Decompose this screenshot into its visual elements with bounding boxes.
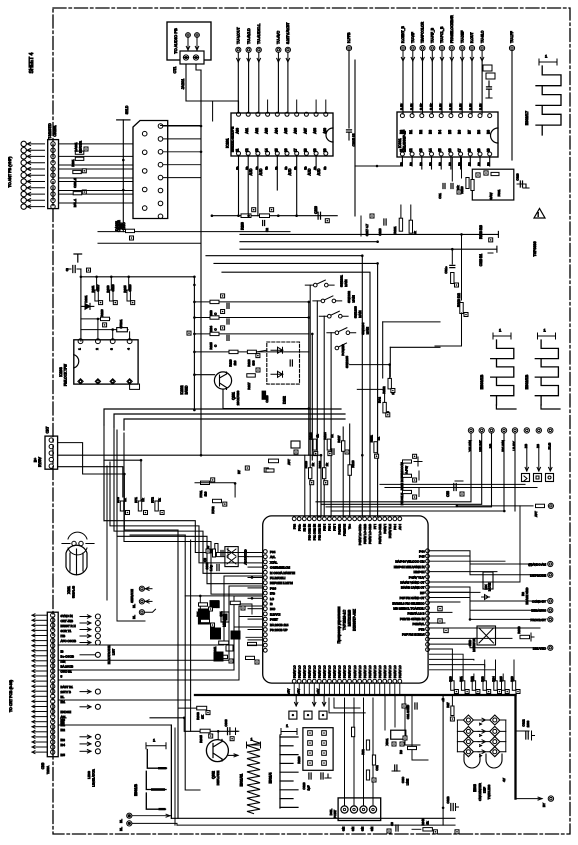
terminal BL2 xyxy=(132,609,156,619)
svg-text:P1/AV LO: P1/AV LO xyxy=(313,665,317,678)
svg-text:P1/AV LO: P1/AV LO xyxy=(348,665,352,678)
svg-text:E901/41: E901/41 xyxy=(240,774,244,787)
wire X902 xyxy=(216,553,248,557)
resistor R216 xyxy=(100,309,110,327)
svg-text:P33: P33 xyxy=(292,524,296,530)
svg-text:P1/AV LO: P1/AV LO xyxy=(333,665,337,678)
U1201 top pin 19 xyxy=(383,517,387,521)
CN9 label 5 xyxy=(61,675,63,679)
wire dgl nest2 xyxy=(353,698,355,806)
wire rb2 xyxy=(430,654,464,667)
svg-text:GND: GND xyxy=(468,640,472,646)
svg-text:AUD: AUD xyxy=(249,168,253,175)
svg-text:3.3k: 3.3k xyxy=(469,103,473,110)
marker E901B xyxy=(146,737,166,749)
wire U1201 left stub 9 xyxy=(248,644,262,646)
U1201 top pin 16 label xyxy=(368,524,372,544)
CN9 stub 14 xyxy=(32,680,47,683)
svg-text:+5V: +5V xyxy=(296,689,300,694)
CN9 label B+-OSOB xyxy=(61,654,74,658)
tuner pin R5 xyxy=(158,175,163,180)
arrow into IC201 pin 2 xyxy=(257,53,260,63)
svg-text:SHLD: SHLD xyxy=(125,105,129,114)
wire dgl nest6 xyxy=(334,698,360,708)
svg-text:P1/AV LO: P1/AV LO xyxy=(368,665,372,678)
trimmer RV901 xyxy=(484,715,506,725)
wire CN201 pin to tuner 2 xyxy=(59,155,134,157)
resistor R224 xyxy=(209,310,229,334)
U1201 top pin 8 xyxy=(328,517,332,521)
wire CN201 pin to tuner 1 xyxy=(59,143,134,145)
junction r2 xyxy=(469,618,472,621)
resistor R933 xyxy=(481,676,491,694)
arrow CN201 2 xyxy=(27,149,45,152)
arrow into IC301 pin 6 xyxy=(461,51,464,61)
svg-text:COND-DY: COND-DY xyxy=(532,600,546,604)
terminal PHASELOCKBAR xyxy=(449,15,454,51)
resistor R206 xyxy=(126,229,135,232)
svg-text:RY/5V: RY/5V xyxy=(38,456,42,466)
svg-text:!: ! xyxy=(538,213,539,219)
label E901/41 xyxy=(240,774,244,787)
svg-text:1k: 1k xyxy=(316,434,320,438)
wire IC201 pin 17 down xyxy=(296,155,298,215)
component MONITOR box xyxy=(468,626,496,652)
CN9 label BABT B1 xyxy=(61,685,74,689)
svg-text:A06: A06 xyxy=(294,128,298,134)
transistor Q902 xyxy=(206,731,228,761)
svg-text:AUD: AUD xyxy=(317,168,321,175)
U1201 right pin P45 xyxy=(426,554,430,558)
svg-text:Q902: Q902 xyxy=(212,771,216,779)
connector box TO AUDIO PB xyxy=(167,22,211,60)
value label pin 7 xyxy=(469,103,473,110)
svg-text:JA201: JA201 xyxy=(181,79,185,90)
svg-text:R72: R72 xyxy=(151,497,155,503)
svg-text:5b: 5b xyxy=(255,166,259,170)
waveform E901/B trace xyxy=(146,750,166,811)
U1201 bottom pin 57 label xyxy=(328,665,332,678)
CN9 pin 14 xyxy=(51,679,55,683)
resistor R72 xyxy=(151,497,165,515)
CN201 pin 11 xyxy=(51,204,55,208)
wire JA201 left pin to IC201 pin1 xyxy=(186,64,239,112)
U1201 right pin EYB/BL3 FM SELIEIOO xyxy=(426,601,430,605)
svg-text:BL: BL xyxy=(132,615,136,619)
U1201 top pin 10 xyxy=(338,517,342,521)
remocon row3 xyxy=(400,488,419,506)
CN201 outer lug 3 xyxy=(21,154,26,159)
arrow into IC301 pin 4 xyxy=(440,51,443,61)
U1201 bottom pin 45 xyxy=(388,679,392,683)
transistor Q201 xyxy=(214,372,231,390)
wire AFT 505 xyxy=(456,505,533,513)
CN9 pin 11 xyxy=(51,664,55,668)
svg-text:MEM: MEM xyxy=(223,619,227,627)
terminal H3 xyxy=(524,428,530,448)
network pad L0 xyxy=(308,731,313,736)
resistor F701 xyxy=(199,478,215,498)
U1201 right pin label 0 xyxy=(419,549,425,553)
svg-text:A02: A02 xyxy=(255,128,259,134)
CN9 stub 13 xyxy=(32,675,47,678)
waveform E302/1B xyxy=(525,340,560,409)
U1201 right pin P3F FM SAND OT xyxy=(426,596,430,600)
svg-text:P1/AV LO: P1/AV LO xyxy=(373,665,377,678)
CN201 outer lug 8 xyxy=(21,185,26,190)
svg-text:2k: 2k xyxy=(325,463,329,467)
svg-text:V: V xyxy=(479,723,483,725)
svg-text:BL: BL xyxy=(61,695,65,699)
svg-text:R31: R31 xyxy=(459,676,463,682)
wire R932 up xyxy=(473,674,475,681)
wire 460 run xyxy=(104,459,142,501)
U1201 bottom pin 46 xyxy=(383,679,387,683)
svg-text:PG I: PG I xyxy=(393,524,397,530)
DGL pin label 3 xyxy=(361,827,365,831)
label IC201 pin 16 net xyxy=(288,168,292,175)
label MEM xyxy=(223,619,227,627)
trimmer RV921 xyxy=(484,737,506,747)
CN201 outer lug 2 xyxy=(21,148,26,153)
svg-text:E901/B: E901/B xyxy=(134,784,138,796)
svg-text:1k0: 1k0 xyxy=(233,360,237,365)
label 4V xyxy=(502,778,506,782)
svg-text:R127: R127 xyxy=(337,435,341,443)
svg-text:IB3: IB3 xyxy=(61,738,66,742)
svg-text:P1/AV LO: P1/AV LO xyxy=(303,665,307,678)
terminal S.MTV.AV.BT xyxy=(285,22,290,53)
wire step from JA201 xyxy=(212,101,214,121)
U1201 right pin label 13 xyxy=(400,617,425,621)
U1201 top pin 7 xyxy=(323,517,327,521)
svg-text:P1/AV LO: P1/AV LO xyxy=(383,665,387,678)
IC301 bottom pin 18 xyxy=(467,148,472,156)
U1201 left pin label FLLM/ОБLI xyxy=(270,576,285,580)
terminal BY out xyxy=(516,796,554,807)
svg-text:3: 3 xyxy=(110,348,114,350)
svg-text:C33: C33 xyxy=(446,491,450,497)
svg-text:IB1: IB1 xyxy=(61,723,66,727)
terminal HELIMT xyxy=(479,428,485,452)
junction bus 374.7 xyxy=(193,373,196,376)
U1201 bottom pin 59 xyxy=(317,679,321,683)
svg-text:B0: B0 xyxy=(399,130,403,134)
IC301 bottom pin 12 xyxy=(409,148,414,156)
capacitor C920 xyxy=(302,773,331,791)
resistor R907 xyxy=(206,544,218,554)
CN201 outer lug 9 xyxy=(21,191,26,196)
svg-text:R34: R34 xyxy=(492,676,496,682)
svg-text:P34+: P34+ xyxy=(297,524,301,531)
label IC201 net 0 xyxy=(236,166,240,170)
svg-text:R218: R218 xyxy=(247,359,251,367)
svg-text:PWM/YH: PWM/YH xyxy=(343,524,347,536)
svg-text:P32 OSM IN: P32 OSM IN xyxy=(318,524,322,540)
wire h535 xyxy=(130,534,185,536)
wire IC201 pin 13 down xyxy=(257,155,259,215)
svg-text:R126: R126 xyxy=(318,461,322,469)
capacitor C906 xyxy=(205,562,219,571)
svg-text:(R)AVDC-AM: (R)AVDC-AM xyxy=(528,563,546,567)
tuner pin R2 xyxy=(158,137,163,142)
terminal JA201 pin 2 xyxy=(195,33,200,38)
wire R931 up xyxy=(462,667,464,681)
terminal BL3 xyxy=(119,813,171,823)
DGL pin 1 xyxy=(341,806,348,813)
value label pin 5 xyxy=(449,103,453,110)
svg-text:P1/AV LO: P1/AV LO xyxy=(323,665,327,678)
wire CN9 r4 xyxy=(58,606,262,680)
wire IC201 pin 15 down xyxy=(276,155,278,190)
marker E302b xyxy=(538,328,556,340)
svg-text:P30 OSM IN: P30 OSM IN xyxy=(308,524,312,540)
U1201 right pin extra 1 xyxy=(426,643,430,647)
CN9 mini terminal 691 xyxy=(80,689,100,694)
svg-text:+9V: +9V xyxy=(316,689,320,694)
U1201 top pin 14 xyxy=(358,517,362,521)
svg-text:C912: C912 xyxy=(522,719,526,727)
CN9 extra label 5 xyxy=(61,753,66,757)
tuner pin R3 xyxy=(158,150,163,155)
wire IC201 pin 3 stub xyxy=(267,100,269,112)
wire row 329 xyxy=(81,329,128,331)
U1201 right pin label 15 xyxy=(419,627,425,631)
U1201 top pin 2 xyxy=(297,517,301,521)
svg-text:1: 1 xyxy=(545,54,548,59)
U1201 right pin HA/AB VIANO OT xyxy=(426,580,430,584)
svg-text:BL: BL xyxy=(119,819,123,823)
wire tuner out 3 xyxy=(163,164,201,166)
IC301 top pin 2 xyxy=(409,114,414,134)
connector CN9 body xyxy=(41,612,58,774)
CN9 pin 2 xyxy=(51,618,55,622)
svg-text:GN: GN xyxy=(361,827,365,831)
U1201 left pin 16 xyxy=(263,633,267,637)
terminal TU-PCL_B xyxy=(439,26,444,51)
IC203 bottom pin 6 xyxy=(95,379,100,384)
DGL pin 4 xyxy=(369,806,376,813)
CN201 outer lug 5 xyxy=(21,166,26,171)
svg-text:MUTE: MUTE xyxy=(488,583,492,591)
capacitor C320 xyxy=(516,173,530,188)
terminal BL1 xyxy=(132,599,152,608)
memory U902 blob1 xyxy=(210,601,219,608)
svg-text:AO I: AO I xyxy=(398,524,402,530)
svg-text:YEL/GN: YEL/GN xyxy=(468,440,472,451)
terminal TU-V.OUT xyxy=(236,27,241,53)
wire long 419 xyxy=(124,419,345,430)
svg-text:LESS: LESS xyxy=(87,771,91,779)
svg-text:C31: C31 xyxy=(438,193,442,199)
CN201 pin 10 xyxy=(51,198,55,202)
junction q902 xyxy=(217,730,220,733)
CN9 pin 16 xyxy=(51,689,55,693)
svg-text:P3B/AVL: P3B/AVL xyxy=(413,622,425,626)
label D202 xyxy=(283,396,287,404)
wire terminal to IC201 pin 3 xyxy=(277,62,279,112)
resistor R219 xyxy=(229,350,239,366)
label IC301 net 8 xyxy=(477,162,481,166)
U1201 left pin 13 xyxy=(263,617,267,621)
resistor R318 xyxy=(460,303,468,317)
CN9 mini terminal 655 xyxy=(80,652,100,657)
svg-text:R221: R221 xyxy=(393,226,397,234)
bracket cup left xyxy=(464,754,480,768)
IC201 bottom pin 17 xyxy=(294,148,299,155)
tuner pin L3 xyxy=(142,169,147,174)
CN9 mini terminal 629.5 xyxy=(80,627,100,632)
resistor R223 xyxy=(209,294,229,318)
wire mem2 xyxy=(240,604,252,614)
CN201 outer lug 11 xyxy=(21,204,26,209)
CN9 stub 9 xyxy=(32,654,47,657)
svg-text:CN201: CN201 xyxy=(53,125,57,136)
svg-text:TU-AUDIO.L: TU-AUDIO.L xyxy=(257,24,261,44)
svg-text:PTB: PTB xyxy=(419,627,425,631)
svg-text:1: 1 xyxy=(78,348,82,350)
svg-text:2STV B: 2STV B xyxy=(61,690,71,694)
tuner pin R8 xyxy=(158,214,163,219)
svg-text:4V: 4V xyxy=(502,778,506,782)
arrow CN201 6 xyxy=(27,174,45,177)
svg-text:SW1205: SW1205 xyxy=(345,356,349,368)
waveform E901/41 xyxy=(247,737,261,814)
CN9 mini terminal 642.5 xyxy=(80,640,100,645)
wire dgl nest5 xyxy=(329,698,365,713)
tuner pin L5 xyxy=(142,206,147,211)
U1201 top pin 21 label xyxy=(393,524,397,530)
resistor R202 xyxy=(75,157,84,160)
terminal COND-DY xyxy=(532,598,553,603)
junction bus 351.9 xyxy=(193,351,196,354)
svg-text:12: 12 xyxy=(409,148,413,152)
CN9 stub 23 xyxy=(32,725,47,728)
svg-text:LEVELATOR: LEVELATOR xyxy=(92,768,96,786)
U1201 bottom pin 54 xyxy=(343,679,347,683)
svg-text:12: 12 xyxy=(245,148,249,152)
CN9 stub 21 xyxy=(32,715,47,718)
svg-text:E302/1B: E302/1B xyxy=(525,374,529,389)
svg-text:5b: 5b xyxy=(245,166,249,170)
CN9 pin 17 xyxy=(51,694,55,698)
resistor R218 xyxy=(247,350,256,366)
pad box 323 xyxy=(319,711,327,719)
resistor R911 xyxy=(213,641,229,653)
svg-text:MAIN: MAIN xyxy=(365,327,369,334)
svg-text:3.3k: 3.3k xyxy=(400,103,404,110)
svg-text:5b: 5b xyxy=(274,166,278,170)
CN9 pin 22 xyxy=(51,720,55,724)
wire stub351 to D202 xyxy=(256,350,266,352)
component AFT xyxy=(534,504,545,517)
label bus right xyxy=(441,698,445,702)
svg-text:SW1202: SW1202 xyxy=(347,291,351,303)
wire rail 215 xyxy=(211,214,338,217)
CN9 mini terminal 636 xyxy=(80,634,100,639)
svg-text:IC203: IC203 xyxy=(59,367,63,377)
terminal PROCL-DY xyxy=(530,617,552,622)
svg-text:E3: E3 xyxy=(448,162,452,166)
IC301 top pin 10 xyxy=(487,114,492,134)
wire terminal to IC301 pin 3 xyxy=(431,61,433,114)
U1201 right pin HA/P44 VELOOC CM xyxy=(426,559,430,563)
IC301 bottom pin 16 xyxy=(448,148,453,156)
capacitor C218 xyxy=(378,219,386,236)
value label pin 8 xyxy=(479,103,483,110)
svg-text:TWIDLE03: TWIDLE03 xyxy=(487,784,491,799)
junction bottom xyxy=(442,807,445,810)
svg-text:I3: I3 xyxy=(270,602,273,606)
U1201 left pin 10 xyxy=(263,602,267,606)
CN9 pin 10 xyxy=(51,659,55,663)
resonator X201 body xyxy=(66,545,87,575)
wire v349b xyxy=(349,424,351,517)
wire R930 up xyxy=(451,660,453,681)
svg-text:B+-OSOB: B+-OSOB xyxy=(61,654,74,658)
wire U1201 left stub 8 xyxy=(248,639,262,641)
svg-text:A-PW: A-PW xyxy=(405,466,409,474)
svg-text:1: 1 xyxy=(153,737,156,742)
label RN901 xyxy=(297,756,301,764)
svg-text:1k: 1k xyxy=(330,434,334,438)
svg-text:PHASELOCKBAR: PHASELOCKBAR xyxy=(450,15,454,43)
U1201 bottom pin 63 label xyxy=(297,665,301,678)
diode D202a xyxy=(271,347,283,353)
wire trimmer vright xyxy=(505,720,507,752)
svg-text:AFT: AFT xyxy=(534,511,538,517)
label IC201 pin 13 net xyxy=(259,168,263,175)
svg-text:M3: M3 xyxy=(489,444,493,449)
CN9 label 2STV B xyxy=(61,690,71,694)
U1201 left pin 19 xyxy=(263,648,267,652)
resistor R70 xyxy=(116,497,130,515)
wire U1201 left stub 1 xyxy=(248,566,262,568)
tuner pin R7 xyxy=(158,201,163,206)
CN9 mini terminal 623 xyxy=(80,621,100,626)
svg-text:R209: R209 xyxy=(241,222,245,230)
CN9 stub 24 xyxy=(32,730,47,733)
wire nest L3 xyxy=(114,427,262,573)
capacitor C908 xyxy=(224,719,239,741)
svg-text:B5: B5 xyxy=(448,130,452,134)
wire tuner top to bus xyxy=(161,125,202,127)
wire R213 up xyxy=(110,276,113,291)
block E903 innards xyxy=(0,0,1,1)
wire stub 333 xyxy=(194,333,308,335)
IC201 top pin 4 xyxy=(265,112,270,133)
CN9 mini terminal 743.9 xyxy=(80,741,100,746)
CN9 pin 20 xyxy=(51,709,55,713)
wire tuner out 2 xyxy=(163,151,201,153)
wire terminal to IC301 pin 5 xyxy=(451,61,453,114)
CN9 label ITN xyxy=(61,659,66,663)
U1201 left pin label P3 2SOB UP xyxy=(270,628,288,632)
IC203 top pin 1 xyxy=(78,339,83,350)
U1201 left pin 18 xyxy=(263,643,267,647)
U1201 bottom pin 53 xyxy=(348,679,352,683)
svg-text:EXOSH: EXOSH xyxy=(61,710,72,714)
IC201 top pin 8 xyxy=(303,112,308,133)
label IC201 net 6 xyxy=(294,166,298,170)
svg-text:R940: R940 xyxy=(421,818,425,825)
IC201 top pin 3 xyxy=(255,112,260,133)
crystal X901 xyxy=(385,730,406,746)
svg-text:POWER: POWER xyxy=(341,344,345,356)
svg-text:17: 17 xyxy=(294,148,298,152)
svg-text:3.3k: 3.3k xyxy=(420,103,424,110)
label CN202 DNO xyxy=(117,220,126,232)
